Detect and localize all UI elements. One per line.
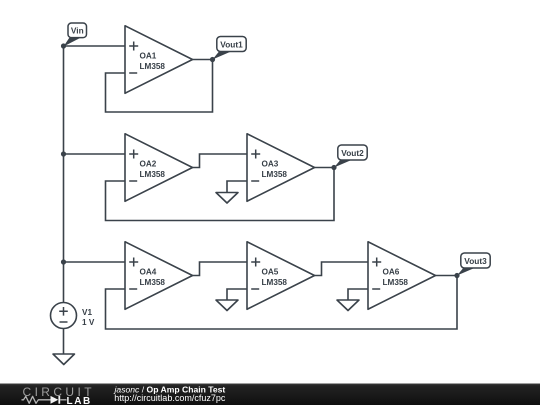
CircuitLab logo resistor zigzag and diode — [22, 396, 67, 404]
wire OA2 feedback loop — [106, 168, 335, 221]
ground below V1 — [53, 354, 75, 365]
node flag Vout3 — [457, 253, 490, 276]
svg-text:http://circuitlab.com/cfuz7pc: http://circuitlab.com/cfuz7pc — [114, 393, 226, 403]
svg-text:Vin: Vin — [71, 26, 84, 36]
node Vin junction dot — [61, 43, 66, 48]
svg-text:OA2: OA2 — [140, 160, 157, 169]
op-amp OA4 LM358 — [125, 242, 193, 310]
svg-text:LM358: LM358 — [140, 170, 166, 179]
op-amp OA2 LM358 — [125, 134, 193, 202]
ground at OA3 input — [216, 193, 238, 204]
svg-text:LM358: LM358 — [383, 278, 409, 287]
ground at OA5 input — [216, 300, 238, 311]
svg-text:1 V: 1 V — [82, 318, 95, 327]
op-amp OA3 LM358 — [247, 134, 315, 202]
wire OA3 output — [315, 167, 335, 169]
wire rail to OA2 + input — [64, 153, 126, 155]
node Vout3 dot — [454, 273, 459, 278]
wire OA5 output to OA6 + input — [315, 262, 369, 276]
node row-3 junction dot — [61, 259, 66, 264]
svg-text:OA6: OA6 — [383, 268, 400, 277]
wire OA3 - input to ground — [227, 181, 247, 193]
node Vout1 dot — [210, 57, 215, 62]
voltage source V1 — [51, 303, 95, 329]
svg-text:OA1: OA1 — [140, 52, 157, 61]
wire rail to OA4 + input — [64, 261, 126, 263]
node flag Vout2 — [334, 145, 367, 168]
node Vout2 dot — [331, 165, 336, 170]
svg-text:LM358: LM358 — [262, 278, 288, 287]
node flag Vin — [64, 23, 87, 47]
wire OA4 feedback loop — [106, 276, 458, 330]
wire OA6 - input to ground — [348, 289, 368, 300]
wire Vin to OA1 + input — [64, 45, 126, 47]
op-amp OA5 LM358 — [247, 242, 315, 310]
svg-text:LM358: LM358 — [140, 62, 166, 71]
svg-text:V1: V1 — [82, 308, 92, 317]
svg-text:Vout2: Vout2 — [341, 148, 364, 158]
svg-text:Vout3: Vout3 — [464, 256, 487, 266]
svg-text:LM358: LM358 — [262, 170, 288, 179]
svg-text:OA3: OA3 — [262, 160, 279, 169]
footer bar — [0, 384, 540, 405]
op-amp OA1 LM358 — [125, 26, 193, 94]
svg-text:OA4: OA4 — [140, 268, 157, 277]
node row-2 junction dot — [61, 151, 66, 156]
wire left rail Vin to V1 — [63, 46, 65, 303]
node flag Vout1 — [213, 37, 247, 60]
op-amp OA6 LM358 — [368, 242, 436, 310]
wire OA6 output — [436, 275, 458, 277]
svg-text:Vout1: Vout1 — [220, 40, 243, 50]
svg-text:LAB: LAB — [67, 396, 92, 405]
ground at OA6 input — [337, 300, 359, 311]
wire OA4 output to OA5 + input — [193, 262, 248, 276]
wire OA5 - input to ground — [227, 289, 247, 300]
wire OA1 output — [193, 59, 213, 61]
wire OA2 output to OA3 + input — [193, 154, 248, 168]
wire V1 to ground — [63, 329, 65, 355]
wire OA1 feedback loop — [106, 60, 213, 113]
svg-text:LM358: LM358 — [140, 278, 166, 287]
svg-text:OA5: OA5 — [262, 268, 279, 277]
